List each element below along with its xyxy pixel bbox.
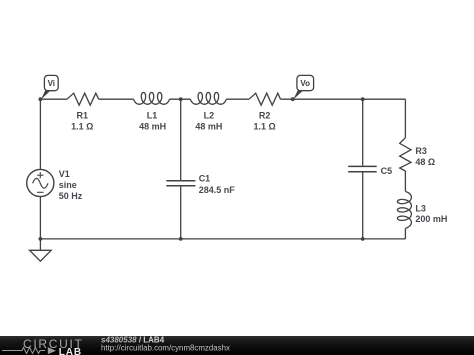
svg-text:48 mH: 48 mH: [195, 122, 222, 132]
svg-text:C1: C1: [199, 174, 211, 184]
svg-text:48 mH: 48 mH: [139, 122, 166, 132]
svg-text:R3: R3: [415, 146, 427, 156]
svg-text:R1: R1: [77, 111, 89, 121]
svg-text:sine: sine: [59, 180, 77, 190]
svg-text:C5: C5: [381, 166, 393, 176]
svg-text:284.5 nF: 284.5 nF: [199, 185, 236, 195]
svg-text:200 mH: 200 mH: [415, 214, 447, 224]
svg-text:L2: L2: [204, 111, 215, 121]
svg-text:50 Hz: 50 Hz: [59, 191, 83, 201]
svg-text:http://circuitlab.com/cynm8cmz: http://circuitlab.com/cynm8cmzdashx: [101, 343, 230, 352]
svg-text:1.1 Ω: 1.1 Ω: [253, 122, 275, 132]
svg-text:Vo: Vo: [300, 79, 310, 88]
svg-text:V1: V1: [59, 169, 70, 179]
svg-text:48 Ω: 48 Ω: [415, 157, 435, 167]
svg-text:R2: R2: [259, 111, 271, 121]
svg-text:L1: L1: [147, 111, 158, 121]
svg-text:L3: L3: [415, 203, 426, 213]
svg-text:Vi: Vi: [48, 79, 55, 88]
svg-text:1.1 Ω: 1.1 Ω: [71, 122, 93, 132]
svg-text:LAB: LAB: [59, 347, 82, 355]
